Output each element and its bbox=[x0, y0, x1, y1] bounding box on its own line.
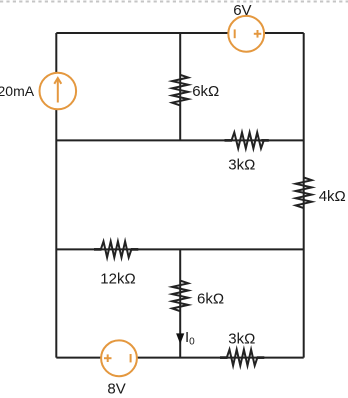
current arrow I0 bbox=[176, 333, 184, 344]
resistor 3k bottom bbox=[227, 350, 258, 366]
resistor 6k upper bbox=[172, 75, 188, 106]
wire top bbox=[56, 32, 303, 34]
resistor 12k bbox=[101, 241, 132, 257]
svg-text:6V: 6V bbox=[233, 2, 251, 19]
voltage source 6V bbox=[228, 16, 264, 52]
svg-text:20mA: 20mA bbox=[0, 83, 35, 99]
svg-text:I0: I0 bbox=[185, 329, 195, 348]
wire left bbox=[55, 33, 57, 358]
voltage source 8V bbox=[101, 340, 137, 376]
resistor 6k lower bbox=[172, 281, 188, 312]
wire middle lower branch bbox=[179, 249, 181, 357]
resistor 4k bbox=[296, 178, 312, 209]
wire node C horizontal bbox=[56, 248, 303, 250]
svg-text:12kΩ: 12kΩ bbox=[100, 270, 135, 287]
dashed border top bbox=[0, 1, 348, 3]
resistor 12k lead bbox=[94, 248, 102, 251]
resistor 3k middle bbox=[232, 132, 264, 148]
wire node B horizontal bbox=[56, 139, 303, 141]
wire right bbox=[303, 33, 305, 358]
svg-text:6kΩ: 6kΩ bbox=[192, 83, 219, 100]
svg-text:6kΩ: 6kΩ bbox=[197, 290, 224, 307]
svg-text:8V: 8V bbox=[107, 381, 125, 398]
wire middle upper branch bbox=[179, 33, 181, 140]
resistor 3k middle lead bbox=[225, 139, 233, 142]
wire bottom bbox=[56, 357, 303, 359]
svg-text:3kΩ: 3kΩ bbox=[228, 330, 255, 347]
svg-text:3kΩ: 3kΩ bbox=[228, 156, 255, 173]
current source 20mA bbox=[40, 73, 77, 110]
svg-text:4kΩ: 4kΩ bbox=[319, 188, 346, 205]
resistor 3k bottom lead bbox=[220, 356, 228, 359]
